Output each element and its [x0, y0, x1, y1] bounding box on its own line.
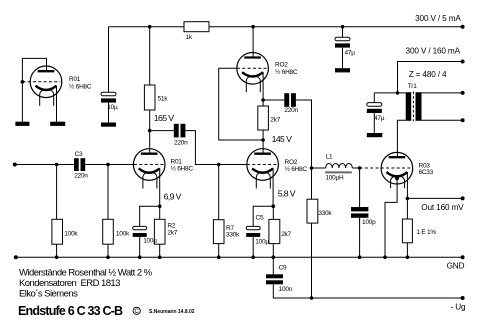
svg-text:C3: C3 — [75, 151, 83, 158]
wire primary bottom to R03 anode — [397, 120, 405, 157]
heater V1 — [40, 89, 54, 106]
svg-text:100µH: 100µH — [325, 175, 344, 182]
grid V1 dashed — [22, 81, 60, 83]
wire 220n-2 to bias column — [296, 100, 312, 199]
wire to 100u bypass — [140, 206, 160, 226]
wire 2k7-1 lower — [262, 130, 264, 140]
wire L1 to grid node — [352, 167, 359, 169]
anode strap wire V1 — [22, 58, 46, 121]
node grid/R7 junction — [217, 163, 221, 167]
svg-text:220n: 220n — [74, 173, 88, 180]
wire R03 cathode lead — [406, 172, 408, 198]
transformer Tr1 core dashed — [412, 92, 414, 122]
svg-text:100k: 100k — [116, 230, 130, 237]
svg-text:2k7: 2k7 — [281, 231, 291, 238]
terminal secondary top — [461, 91, 465, 95]
envelope RO2a — [237, 53, 269, 85]
transformer Tr1 primary winding — [406, 92, 412, 121]
svg-text:S.Neumann 14.8.02: S.Neumann 14.8.02 — [149, 309, 195, 315]
capacitor C5 100u — [246, 226, 260, 237]
node top rail / 51k junction — [148, 25, 152, 29]
wire RO2a anode lead — [252, 27, 254, 58]
plate V2 — [141, 153, 158, 155]
wire GND rail — [16, 256, 463, 258]
heater RO2a — [246, 76, 260, 93]
node input/100k — [55, 163, 59, 167]
wire to 220n-2 — [263, 99, 284, 101]
capacitor 10u electrolytic — [101, 92, 116, 102]
terminal 300V 160mA — [461, 60, 465, 64]
plate RO2a — [244, 56, 261, 58]
svg-text:5,8 V: 5,8 V — [278, 189, 296, 199]
svg-text:47µ: 47µ — [374, 115, 385, 122]
resistor R2 2k7 — [154, 219, 165, 244]
wire 100k-1 upper — [56, 165, 58, 220]
node V2 cathode — [158, 204, 162, 208]
grid RO2a dashed — [237, 67, 267, 69]
node GND 1E — [406, 255, 410, 259]
svg-text:300 V / 5 mA: 300 V / 5 mA — [415, 14, 461, 23]
ground bar 47u-1 — [335, 68, 350, 72]
terminal input — [13, 163, 17, 167]
envelope RO2b — [247, 149, 279, 181]
resistor 100k grid right — [103, 219, 114, 244]
wire RO2b anode lead — [262, 140, 264, 154]
node RO2b cathode — [272, 204, 276, 208]
wire 330k lower to -Ug — [311, 223, 313, 298]
terminal secondary bottom — [461, 118, 465, 122]
svg-text:100p: 100p — [362, 219, 376, 226]
tube V1 unused half R01 1/2 6H8C — [15, 58, 92, 125]
wire 51k lower to 165V node — [149, 110, 151, 131]
wire 10u branch vertical — [108, 27, 110, 93]
svg-text:220n: 220n — [174, 140, 188, 147]
node C3/100k-2 — [106, 163, 110, 167]
wire 1E lower — [406, 243, 408, 257]
svg-text:Tr1: Tr1 — [408, 83, 417, 90]
capacitor C3 220n input — [74, 158, 85, 171]
svg-text:RO2: RO2 — [275, 62, 288, 69]
svg-text:145 V: 145 V — [272, 134, 293, 144]
wire R2 upper — [159, 206, 161, 219]
svg-text:47µ: 47µ — [345, 50, 356, 57]
svg-text:½ 6H8C: ½ 6H8C — [171, 165, 194, 173]
node R03 grid — [358, 166, 362, 170]
ground bar under 10u — [101, 123, 116, 127]
ground bar V1 cathode side — [50, 122, 65, 126]
ground bar V1 grid side — [15, 122, 29, 126]
wire 100u lower — [139, 237, 141, 257]
ground bar 47u-2 — [367, 133, 383, 137]
terminal -Ug — [461, 296, 465, 300]
capacitor 47u cathode feed — [367, 103, 382, 113]
envelope V2 — [133, 149, 165, 181]
node SRPP midpoint 145V — [261, 138, 265, 142]
node rail 47u-1 — [341, 25, 345, 29]
wire secondary top — [422, 92, 463, 94]
heater V2 — [143, 172, 157, 189]
svg-text:GND: GND — [447, 262, 465, 271]
svg-text:51k: 51k — [158, 96, 169, 103]
svg-text:300 V / 160 mA: 300 V / 160 mA — [406, 46, 461, 55]
resistor 100k input left — [52, 219, 63, 244]
svg-text:Elko´s Siemens: Elko´s Siemens — [19, 289, 78, 300]
heater R03 — [391, 176, 405, 189]
resistor R7 330k — [213, 220, 224, 244]
svg-text:Endstufe 6 C 33 C-B: Endstufe 6 C 33 C-B — [18, 304, 123, 318]
svg-text:165 V: 165 V — [154, 113, 175, 123]
svg-text:½ 6H8C: ½ 6H8C — [285, 165, 308, 173]
resistor 330k bias — [307, 199, 318, 223]
wire 100k-2 lower — [107, 244, 109, 257]
resistor 2k7 RO2b cathode — [269, 219, 280, 243]
wire secondary bottom — [422, 119, 463, 121]
node GND 100u — [138, 255, 142, 259]
wire C5 lower — [252, 237, 254, 257]
svg-text:2k7: 2k7 — [270, 117, 280, 124]
heater RO2b — [256, 172, 270, 189]
svg-text:6,9 V: 6,9 V — [164, 192, 182, 202]
capacitor 220n coupling stage1-2 — [174, 124, 186, 138]
wire feed to 47u-2 — [374, 92, 405, 94]
svg-text:100µ: 100µ — [143, 237, 157, 244]
svg-text:100µ: 100µ — [255, 239, 269, 246]
plate R03 — [389, 156, 406, 158]
cathode V2 — [139, 168, 160, 172]
svg-text:330k: 330k — [226, 232, 240, 239]
wire input row — [15, 164, 74, 166]
wire 100p upper — [359, 168, 361, 207]
wire 1E upper — [406, 198, 408, 219]
wire C9 to -Ug rail — [273, 284, 462, 298]
svg-text:½ 6H8C: ½ 6H8C — [275, 68, 298, 76]
tube V2 stage1 R01 1/2 6H8C — [133, 131, 193, 189]
node transformer feed — [396, 91, 400, 95]
wire 47u-2 lower — [373, 113, 375, 133]
svg-text:- Ug: - Ug — [451, 302, 466, 311]
node GND C5 — [251, 255, 255, 259]
svg-text:C5: C5 — [256, 215, 264, 222]
wire V2 cathode lead — [159, 168, 161, 206]
wire C3 to grid — [85, 164, 134, 166]
capacitor 100p grid — [351, 207, 368, 218]
wire 51k upper — [149, 27, 151, 85]
node GND 2k7-2/C9 — [272, 255, 276, 259]
node rail RO2a anode — [251, 25, 255, 29]
grid R03 dashed — [360, 167, 412, 169]
wire 47u-2 upper — [373, 93, 375, 103]
resistor 1k (in top rail) — [184, 22, 209, 32]
svg-text:Z = 480 / 4: Z = 480 / 4 — [409, 70, 447, 79]
svg-text:R01: R01 — [171, 158, 183, 165]
wire 2k7-2 upper — [272, 206, 274, 219]
tube RO2b SRPP lower 1/2 6H8C — [247, 149, 308, 189]
wire 100p lower — [359, 218, 361, 257]
svg-text:L1: L1 — [326, 153, 333, 160]
wire R7 upper — [218, 165, 220, 220]
wire 2k7-1 upper — [262, 100, 264, 106]
grid V2 dashed — [134, 164, 163, 166]
svg-text:2k7: 2k7 — [167, 230, 177, 237]
wire 100k-1 lower — [56, 244, 58, 257]
envelope R03 — [381, 152, 413, 184]
wire 160mA feed — [398, 62, 463, 93]
wire V2 anode lead — [149, 131, 151, 154]
wire heater tie to GND — [385, 178, 397, 257]
svg-text:100n: 100n — [279, 286, 293, 293]
cathode RO2a — [242, 72, 263, 76]
cathode R03 — [386, 172, 407, 176]
node SRPP cathode / 220n tap — [261, 98, 265, 102]
terminal GND left — [14, 255, 18, 259]
svg-text:330k: 330k — [318, 210, 332, 217]
capacitor 47u rail — [335, 37, 350, 47]
node V1 grid tie — [21, 80, 25, 84]
node 165V — [148, 129, 152, 133]
svg-text:R01: R01 — [69, 76, 81, 83]
wire top rail 300V/5mA — [109, 26, 463, 28]
node L1 tap — [310, 166, 314, 170]
copyright mark — [133, 307, 140, 315]
wire C9 upper — [272, 257, 274, 274]
svg-text:½ 6H8C: ½ 6H8C — [69, 82, 92, 90]
plate V1 — [38, 70, 55, 72]
wire RO2a cathode lead — [262, 72, 264, 100]
cathode V1 — [36, 86, 57, 90]
svg-text:RO2: RO2 — [285, 159, 298, 166]
svg-text:C9: C9 — [279, 265, 287, 272]
svg-text:C: C — [135, 309, 140, 315]
wire R2 lower — [159, 244, 161, 257]
svg-text:6C33: 6C33 — [419, 169, 434, 176]
capacitor 220n SRPP out — [284, 93, 296, 107]
tube RO2a SRPP upper 1/2 6H8C — [237, 53, 298, 93]
inductor L1 100uH — [326, 164, 353, 169]
wire 47u-1 lower — [342, 48, 344, 69]
svg-text:Out 160 mV: Out 160 mV — [421, 203, 464, 212]
wire 2k7-2 lower — [272, 244, 274, 257]
svg-text:Kondensatoren ERD 1813: Kondensatoren ERD 1813 — [19, 278, 120, 289]
core bar L1 — [325, 171, 352, 173]
node GND 100k-2 — [106, 255, 110, 259]
resistor 1E 1% — [402, 219, 412, 243]
envelope V1 — [30, 66, 62, 98]
resistor 51k — [144, 85, 155, 110]
wire RO2a grid strap — [219, 68, 263, 140]
terminal GND right — [461, 255, 465, 259]
wire 100k-2 upper — [107, 165, 109, 220]
wire 165V node to coupling cap — [150, 130, 174, 132]
wire 47u-1 upper — [342, 27, 344, 38]
grid RO2b dashed — [247, 164, 277, 166]
svg-text:R2: R2 — [167, 223, 175, 230]
svg-text:220n: 220n — [284, 107, 298, 114]
terminal Out — [461, 196, 465, 200]
capacitor C9 100n — [266, 274, 283, 284]
node GND R2 — [158, 255, 162, 259]
node bias column on -Ug — [310, 296, 314, 300]
wire Out — [407, 197, 462, 199]
resistor 2k7 SRPP — [258, 106, 269, 130]
node GND R7 — [217, 255, 221, 259]
node R03 heater tie — [395, 176, 399, 180]
node GND 100k-1 — [55, 255, 59, 259]
wire RO2b cathode lead — [272, 168, 274, 206]
wire V1 cathode to ground — [56, 86, 58, 122]
svg-text:1 E 1%: 1 E 1% — [416, 229, 436, 236]
capacitor 100u stage1 bypass — [133, 226, 147, 237]
wire 220n to RO2 lower grid — [185, 131, 247, 165]
tube R03 6C33 — [360, 152, 434, 188]
wire to C5 — [253, 206, 273, 226]
terminal 300V 5mA — [461, 25, 465, 29]
node Out — [406, 197, 410, 201]
plate RO2b — [254, 153, 271, 155]
wire R7 lower — [218, 244, 220, 258]
node GND heater tie — [383, 255, 387, 259]
svg-text:1k: 1k — [186, 34, 193, 41]
cathode RO2b — [252, 168, 273, 172]
svg-text:100k: 100k — [64, 230, 78, 237]
wire 10u to ground — [108, 103, 110, 123]
node GND 100p — [358, 255, 362, 259]
transformer Tr1 secondary winding — [416, 92, 422, 121]
wire to L1 — [312, 167, 326, 169]
